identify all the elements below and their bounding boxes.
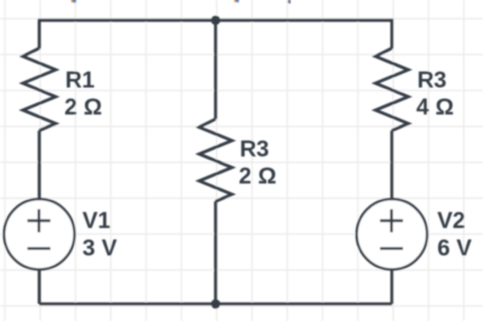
svg-text:4 Ω: 4 Ω — [416, 94, 454, 120]
resistor R1 — [23, 48, 56, 130]
wire left branch middle — [38, 131, 41, 201]
label V2 — [437, 207, 465, 233]
voltage source V1 — [4, 199, 74, 269]
svg-text:V1: V1 — [82, 207, 110, 233]
label R3 middle — [240, 136, 269, 162]
svg-text:2 Ω: 2 Ω — [64, 94, 102, 120]
resistor R3 right — [376, 48, 409, 130]
label V1 — [82, 207, 110, 233]
label R1 — [65, 66, 95, 92]
cropped text fragment 1 — [71, 0, 76, 3]
wire middle branch upper — [214, 20, 217, 119]
svg-text:2 Ω: 2 Ω — [239, 163, 277, 189]
wire left branch upper — [38, 19, 41, 49]
wire right branch middle — [390, 131, 393, 201]
cropped text fragment 2 — [234, 0, 239, 3]
label R3 right — [417, 66, 446, 92]
value 3 V — [82, 235, 117, 261]
svg-text:V2: V2 — [437, 207, 465, 233]
cropped text fragment 3 — [288, 0, 291, 4]
value 6 V — [437, 235, 472, 261]
svg-text:R3: R3 — [417, 66, 446, 92]
wire left branch lower — [38, 269, 41, 304]
svg-text:3 V: 3 V — [82, 235, 117, 261]
svg-text:R3: R3 — [240, 136, 269, 162]
voltage source V2 — [357, 199, 427, 269]
wire top rail — [39, 19, 392, 22]
wire bottom rail — [39, 302, 392, 305]
value 2 ohm R3 middle — [239, 163, 277, 189]
svg-text:R1: R1 — [65, 66, 95, 92]
wire right branch upper — [390, 19, 393, 49]
value 2 ohm R1 — [64, 94, 102, 120]
wire right branch lower — [390, 269, 393, 304]
resistor R3 middle — [199, 119, 232, 201]
svg-text:6 V: 6 V — [437, 235, 472, 261]
node top junction — [211, 16, 220, 25]
value 4 ohm R3 right — [416, 94, 454, 120]
node bottom junction — [211, 299, 220, 308]
wire middle branch lower — [214, 201, 217, 304]
